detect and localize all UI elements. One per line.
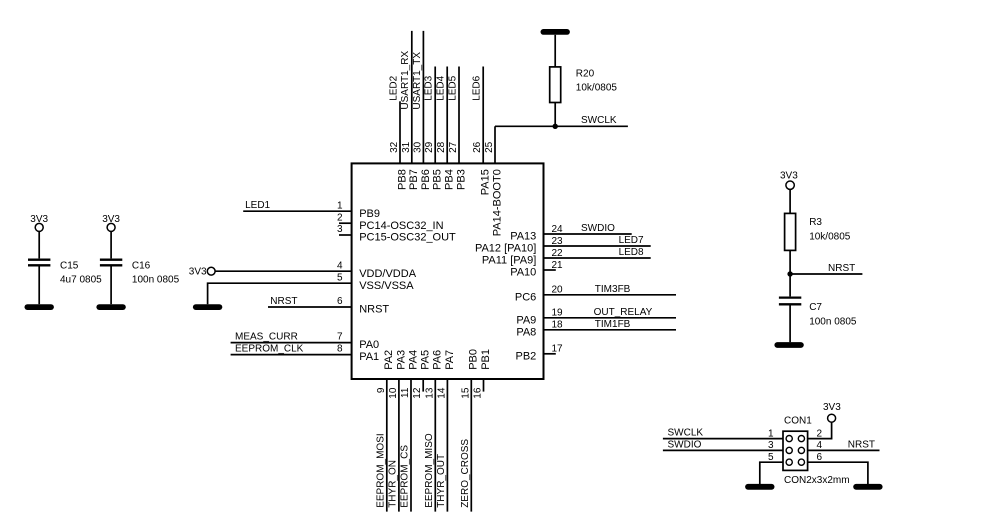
svg-text:10k/0805: 10k/0805 (576, 83, 618, 94)
wire pin 27 (PB3) top (458, 67, 460, 164)
svg-text:17: 17 (552, 344, 564, 355)
svg-text:PA5: PA5 (420, 350, 432, 370)
wire pin 26 (PA15) top (482, 67, 484, 164)
svg-text:PA8: PA8 (516, 326, 536, 338)
wire pin 13 (PA6) bottom (434, 379, 436, 512)
svg-text:100n 0805: 100n 0805 (809, 316, 857, 327)
svg-text:C15: C15 (60, 261, 79, 272)
svg-text:PA0: PA0 (359, 339, 379, 351)
svg-text:PB3: PB3 (455, 169, 467, 190)
wire pin 12 (PA5) bottom (422, 379, 424, 392)
svg-text:PA14-BOOT0: PA14-BOOT0 (491, 169, 503, 236)
svg-text:THYR_OUT: THYR_OUT (436, 454, 447, 508)
svg-text:26: 26 (472, 141, 483, 153)
wire pin 20 (PC6) right (544, 294, 677, 296)
pin 4 circle CON1 (798, 447, 804, 453)
wire SWCLK (495, 125, 628, 127)
svg-text:3V3: 3V3 (189, 266, 207, 277)
wire CON1 pin6 to ground (808, 462, 868, 484)
svg-text:19: 19 (552, 308, 564, 319)
svg-text:8: 8 (337, 344, 343, 355)
capacitor C7 (779, 298, 857, 328)
svg-text:TIM3FB: TIM3FB (595, 284, 631, 295)
svg-text:PA10: PA10 (510, 267, 536, 279)
svg-text:EEPROM_CLK: EEPROM_CLK (235, 343, 304, 354)
net SWCLK (495, 115, 628, 126)
net NRST (pin6) (268, 296, 352, 307)
wire pin 11 (PA4) bottom (410, 379, 412, 512)
pin 3 circle CON1 (786, 447, 792, 453)
svg-text:PB1: PB1 (480, 349, 492, 370)
net SWCLK to CON1 (663, 428, 783, 439)
capacitor C15 (28, 260, 102, 286)
wire pin 25 (PA14-BOOT0) top (494, 126, 496, 163)
svg-text:LED1: LED1 (245, 200, 270, 211)
svg-text:OUT_RELAY: OUT_RELAY (594, 307, 653, 318)
wire NRST (268, 306, 352, 308)
ground (777, 342, 801, 348)
svg-text:C7: C7 (809, 302, 822, 313)
svg-text:SWDIO: SWDIO (668, 439, 702, 450)
net MEAS_CURR (231, 331, 352, 342)
pin 1 circle CON1 (786, 436, 792, 442)
svg-text:1: 1 (337, 200, 343, 211)
svg-text:PC6: PC6 (515, 291, 536, 303)
op-amp U1 microcontroller box (352, 163, 544, 379)
svg-text:10: 10 (388, 387, 399, 399)
node 3V3 above R3 (780, 170, 798, 189)
wire (789, 305, 791, 342)
svg-text:PB7: PB7 (408, 169, 420, 190)
pin 5 circle CON1 (786, 459, 792, 465)
svg-text:20: 20 (552, 285, 564, 296)
wire (110, 231, 112, 258)
wire (38, 231, 40, 258)
net NRST (790, 263, 862, 274)
wire (110, 266, 112, 304)
svg-text:3: 3 (337, 224, 343, 235)
svg-text:R20: R20 (576, 69, 595, 80)
svg-text:3V3: 3V3 (780, 170, 798, 181)
wire pin 17 (PB2) right (544, 353, 556, 355)
svg-text:PC14-OSC32_IN: PC14-OSC32_IN (359, 220, 443, 232)
resistor R3 (785, 213, 851, 250)
wire pin 24 (PA13) right (544, 233, 632, 235)
svg-text:PA6: PA6 (432, 350, 444, 370)
wire CON1 pin2 to 3V3 (808, 422, 832, 438)
wire (38, 266, 40, 304)
wire pin 28 (PB4) top (446, 67, 448, 164)
wire NRST (790, 273, 862, 275)
wire pin3 stub (339, 234, 352, 236)
net NRST at CON1 (808, 439, 880, 450)
svg-text:SWCLK: SWCLK (581, 115, 617, 126)
svg-text:LED5: LED5 (447, 75, 458, 100)
wire EEPROM_CLK (231, 354, 352, 356)
wire pin 10 (PA3) bottom (398, 379, 400, 512)
ground (856, 484, 880, 490)
net SWDIO to CON1 (663, 439, 783, 450)
node 3V3 supply for C16 (102, 214, 120, 232)
ground (748, 484, 772, 490)
wire (789, 190, 791, 214)
svg-text:21: 21 (552, 260, 564, 271)
svg-text:15: 15 (460, 387, 471, 399)
wire pin 21 (PA10) right (544, 269, 556, 271)
svg-text:NRST: NRST (848, 439, 875, 450)
svg-text:5: 5 (337, 272, 343, 283)
wire pin 14 (PA7) bottom (446, 379, 448, 512)
svg-text:PA9: PA9 (516, 314, 536, 326)
wire LED1 (243, 210, 351, 212)
svg-text:PB0: PB0 (468, 349, 480, 370)
svg-text:3V3: 3V3 (823, 402, 841, 413)
svg-text:PA2: PA2 (383, 350, 395, 370)
svg-text:EEPROM_MOSI: EEPROM_MOSI (375, 433, 386, 507)
svg-text:PB8: PB8 (396, 169, 408, 190)
svg-text:NRST: NRST (359, 304, 389, 316)
ground (99, 304, 123, 310)
svg-text:24: 24 (552, 224, 564, 235)
power rail bar above R20 (543, 29, 567, 35)
svg-text:LED4: LED4 (436, 75, 447, 100)
capacitor C16 (100, 260, 180, 286)
node 3V3 at VDD (189, 266, 215, 277)
svg-text:25: 25 (484, 141, 495, 153)
svg-text:2: 2 (337, 212, 343, 223)
svg-text:23: 23 (552, 236, 564, 247)
wire SWDIO (663, 449, 783, 451)
svg-text:PA7: PA7 (444, 350, 456, 370)
svg-text:NRST: NRST (828, 263, 855, 274)
junction SWCLK/R20 (553, 124, 558, 129)
junction NRST/R3/C7 (787, 271, 792, 276)
pin 2 circle CON1 (798, 436, 804, 442)
ground (27, 304, 51, 310)
wire SWCLK (663, 438, 783, 440)
svg-text:LED6: LED6 (472, 75, 483, 100)
svg-text:18: 18 (552, 320, 564, 331)
wire MEAS_CURR (231, 342, 352, 344)
svg-text:6: 6 (337, 296, 343, 307)
svg-text:27: 27 (448, 141, 459, 153)
svg-text:12: 12 (412, 387, 423, 399)
svg-text:PA1: PA1 (359, 351, 379, 363)
svg-text:PA4: PA4 (407, 350, 419, 370)
svg-text:LED8: LED8 (619, 247, 644, 258)
svg-text:USART1_TX: USART1_TX (412, 52, 423, 110)
wire (789, 274, 791, 296)
svg-text:USART1_RX: USART1_RX (400, 51, 411, 110)
svg-text:28: 28 (436, 141, 447, 153)
wire pin 32 (PB8) top (399, 101, 401, 163)
wire pin 30 (PB6) top (422, 31, 424, 164)
node 3V3 at CON1 (823, 402, 841, 422)
wire pin 16 (PB1) bottom (483, 379, 485, 392)
svg-text:PB2: PB2 (516, 350, 537, 362)
svg-text:10k/0805: 10k/0805 (809, 231, 851, 242)
svg-text:R3: R3 (809, 217, 822, 228)
svg-text:7: 7 (337, 332, 343, 343)
svg-text:MEAS_CURR: MEAS_CURR (235, 331, 298, 342)
svg-text:PB5: PB5 (432, 169, 444, 190)
pin 6 circle CON1 (798, 459, 804, 465)
svg-text:TIM1FB: TIM1FB (595, 319, 631, 330)
svg-text:NRST: NRST (270, 296, 297, 307)
svg-text:100n 0805: 100n 0805 (132, 275, 180, 286)
net EEPROM_CLK (231, 343, 352, 354)
svg-text:PB4: PB4 (444, 169, 456, 190)
svg-text:PA15: PA15 (480, 169, 492, 195)
svg-text:VSS/VSSA: VSS/VSSA (359, 280, 414, 292)
node 3V3 supply for C15 (30, 214, 48, 232)
svg-text:PA3: PA3 (395, 350, 407, 370)
svg-text:VDD/VDDA: VDD/VDDA (359, 268, 417, 280)
wire (554, 35, 556, 67)
wire CON1 pin5 to ground (760, 462, 783, 484)
wire (789, 250, 791, 274)
wire pin 23 (PA12 [PA10]) right (544, 245, 651, 247)
connector CON1 body (783, 431, 808, 470)
net LED1 (243, 200, 351, 211)
svg-text:4u7 0805: 4u7 0805 (60, 275, 102, 286)
wire pin 15 (PB0) bottom (470, 379, 472, 512)
svg-text:16: 16 (473, 387, 484, 399)
wire pin 9 (PA2) bottom (386, 379, 388, 512)
svg-text:30: 30 (412, 141, 423, 153)
ground (196, 304, 220, 310)
svg-text:32: 32 (389, 141, 400, 153)
resistor R20 (550, 67, 618, 103)
svg-text:THYR_ON: THYR_ON (388, 460, 399, 508)
svg-text:LED2: LED2 (388, 75, 399, 100)
svg-text:ZERO_CROSS: ZERO_CROSS (460, 439, 471, 508)
wire VDD (215, 270, 352, 272)
svg-text:PB9: PB9 (359, 208, 380, 220)
svg-text:13: 13 (424, 387, 435, 399)
svg-text:4: 4 (337, 260, 343, 271)
svg-text:11: 11 (400, 387, 411, 398)
svg-text:31: 31 (401, 141, 412, 153)
svg-text:EEPROM_MISO: EEPROM_MISO (424, 433, 435, 508)
svg-text:PC15-OSC32_OUT: PC15-OSC32_OUT (359, 232, 456, 244)
wire pin 31 (PB7) top (411, 31, 413, 164)
wire pin 22 (PA11 [PA9]) right (544, 257, 651, 259)
svg-text:EEPROM_CS: EEPROM_CS (400, 445, 411, 508)
wire (554, 103, 556, 127)
svg-text:PA13: PA13 (510, 231, 536, 243)
svg-text:SWCLK: SWCLK (668, 428, 704, 439)
wire VSS to ground (208, 283, 352, 304)
svg-text:SWDIO: SWDIO (581, 223, 615, 234)
wire pin 29 (PB5) top (434, 67, 436, 164)
svg-text:14: 14 (436, 387, 447, 399)
wire pin 19 (PA9) right (544, 317, 677, 319)
svg-text:9: 9 (376, 387, 387, 393)
svg-text:C16: C16 (132, 261, 151, 272)
svg-text:PA11 [PA9]: PA11 [PA9] (482, 255, 536, 267)
svg-text:CON2x3x2mm: CON2x3x2mm (784, 475, 850, 486)
svg-text:22: 22 (552, 248, 564, 259)
svg-text:LED7: LED7 (619, 235, 644, 246)
svg-text:LED3: LED3 (424, 75, 435, 100)
svg-text:CON1: CON1 (784, 415, 812, 426)
svg-text:29: 29 (424, 141, 435, 153)
svg-text:PB6: PB6 (420, 169, 432, 190)
wire pin2 stub (339, 222, 352, 224)
svg-text:PA12 [PA10]: PA12 [PA10] (475, 243, 536, 255)
wire pin 18 (PA8) right (544, 329, 677, 331)
wire NRST (808, 449, 880, 451)
